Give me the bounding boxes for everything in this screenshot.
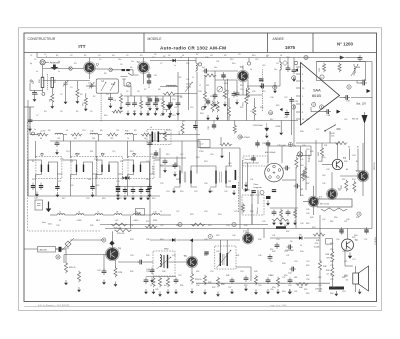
resistor chain 4 — [107, 133, 118, 136]
chain under-labels — [40, 138, 146, 140]
wire — [263, 229, 265, 239]
wire U1 pin 1 — [296, 66, 301, 68]
wire — [245, 105, 247, 121]
resistor bottom 153.5 — [152, 277, 155, 287]
wire shunt rail — [124, 95, 182, 97]
antenna arrow — [50, 65, 58, 71]
wire IF drop 149.5 — [149, 174, 151, 186]
svg-text:SAA: SAA — [313, 89, 321, 93]
transistor T2 — [138, 62, 150, 74]
svg-text:C12: C12 — [222, 96, 225, 98]
ground — [266, 289, 270, 294]
capacitor C19 — [289, 97, 294, 104]
ground — [216, 115, 220, 120]
ground — [216, 292, 220, 297]
resistor R12 — [203, 91, 206, 101]
svg-text:R23: R23 — [160, 165, 163, 167]
label R27 — [69, 267, 75, 269]
svg-text:C31: C31 — [130, 225, 133, 227]
svg-text:R35: R35 — [216, 235, 219, 237]
dashed box TR8 — [215, 246, 236, 269]
coil L7 — [95, 214, 103, 215]
label HP — [344, 276, 348, 278]
wire — [150, 239, 171, 241]
wire — [196, 72, 198, 148]
capacitor C14 — [221, 72, 225, 80]
resistor R16 — [204, 74, 216, 77]
label L7 — [97, 212, 100, 214]
label 07V — [40, 131, 46, 133]
capacitor C44 — [150, 268, 155, 275]
node b2 — [292, 105, 296, 109]
svg-text:1k: 1k — [300, 245, 302, 247]
svg-text:L8: L8 — [280, 55, 282, 57]
svg-text:C62: C62 — [344, 119, 347, 121]
box L9B — [136, 209, 145, 216]
pin 2 — [302, 96, 304, 98]
svg-text:C24: C24 — [166, 191, 169, 193]
box CAR — [38, 247, 62, 253]
wire — [247, 163, 249, 190]
diode D10 — [243, 188, 250, 191]
svg-text:R58: R58 — [282, 263, 285, 265]
dashed box TR4 — [128, 157, 154, 179]
svg-text:C15: C15 — [262, 65, 265, 67]
resistor R30 — [158, 277, 161, 287]
svg-text:C7: C7 — [160, 63, 162, 65]
wire — [229, 152, 231, 166]
capacitor C46d — [272, 189, 276, 192]
wire — [337, 143, 339, 159]
label F2 — [59, 220, 62, 222]
node 8 — [319, 105, 323, 109]
svg-text:C36: C36 — [270, 97, 273, 99]
svg-text:C68: C68 — [340, 233, 343, 235]
svg-text:C31: C31 — [250, 179, 253, 181]
svg-text:R57: R57 — [316, 129, 319, 131]
svg-text:5p: 5p — [96, 65, 98, 67]
svg-text:R66: R66 — [330, 293, 333, 295]
ground — [206, 115, 210, 120]
wire agc drop 63.5 — [63, 135, 65, 142]
svg-text:C41: C41 — [300, 159, 303, 161]
svg-text:C6: C6 — [120, 64, 122, 66]
wire — [155, 159, 161, 161]
svg-text:C33: C33 — [192, 225, 195, 227]
svg-text:C8: C8 — [210, 55, 212, 57]
coil L6 — [76, 214, 84, 215]
capacitor C15 — [260, 84, 267, 89]
label R26 — [114, 227, 122, 229]
svg-text:R3: R3 — [80, 94, 82, 96]
wire mid rail right — [296, 228, 372, 230]
svg-text:470Ω: 470Ω — [275, 126, 280, 128]
ground — [272, 220, 276, 225]
transistor T3 — [237, 70, 249, 82]
coil L9 — [133, 214, 141, 215]
ground — [213, 102, 217, 107]
label 305 — [55, 79, 57, 83]
wire T2 collector — [143, 58, 145, 63]
wire — [124, 85, 131, 87]
svg-text:R8: R8 — [158, 89, 160, 91]
label M8 — [164, 249, 169, 251]
resistor R33 — [216, 277, 219, 287]
diamond node — [283, 61, 288, 66]
pin 13 — [302, 88, 305, 90]
svg-text:R42: R42 — [272, 251, 275, 253]
svg-text:C41: C41 — [272, 235, 275, 237]
label bande — [245, 162, 260, 165]
capacitor C24b — [31, 183, 35, 191]
svg-text:R59: R59 — [322, 157, 325, 159]
svg-text:22n: 22n — [131, 61, 134, 63]
wire IF bottom rail — [28, 195, 160, 197]
label FL2 — [133, 154, 138, 156]
capacitor IF low 148 — [146, 187, 150, 195]
svg-text:R28: R28 — [176, 225, 179, 227]
title ITT — [78, 44, 85, 50]
capacitor C47d — [251, 190, 255, 193]
svg-text:R10: R10 — [104, 115, 107, 117]
wire agc drop 133.5 — [133, 135, 135, 142]
label R27 — [239, 137, 250, 139]
svg-text:R20: R20 — [180, 191, 183, 193]
coil chain 5 — [125, 133, 133, 134]
ground — [254, 290, 258, 295]
resistor R23b — [145, 225, 157, 228]
svg-text:R26: R26 — [90, 225, 93, 227]
label Volume — [257, 206, 259, 214]
capacitor C21 — [193, 123, 197, 131]
svg-text:M8Ω: M8Ω — [164, 249, 169, 251]
wire agc drop 98.5 — [98, 135, 100, 142]
wire — [279, 58, 281, 63]
svg-text:R30: R30 — [244, 225, 247, 227]
dashed box TR7 — [153, 251, 175, 276]
svg-text:R48: R48 — [226, 275, 229, 277]
svg-text:150: 150 — [92, 138, 95, 140]
svg-text:C33: C33 — [198, 91, 201, 93]
resistor R5 — [112, 110, 122, 113]
svg-text:C63: C63 — [342, 291, 345, 293]
svg-text:ANNEE: ANNEE — [273, 37, 285, 41]
label T7 — [319, 196, 323, 200]
svg-text:C20: C20 — [70, 185, 73, 187]
wire — [282, 179, 296, 181]
svg-text:C16: C16 — [286, 57, 289, 59]
svg-text:C3: C3 — [98, 55, 100, 57]
svg-text:R63: R63 — [306, 223, 309, 225]
coil L10 — [152, 214, 160, 215]
svg-text:C10: C10 — [172, 99, 175, 101]
label C4 — [113, 100, 117, 102]
capacitor C28b — [255, 140, 259, 148]
label 47k — [315, 243, 319, 245]
svg-text:C11: C11 — [120, 111, 123, 113]
svg-text:C58-100nF: C58-100nF — [253, 125, 264, 127]
circled plus — [288, 142, 292, 146]
svg-text:R58: R58 — [300, 131, 303, 133]
trimmer node — [126, 82, 131, 87]
capacitor C38 — [325, 109, 332, 114]
wire — [111, 231, 113, 248]
wire — [270, 207, 298, 209]
coil bar L10 — [235, 170, 237, 180]
svg-text:R40: R40 — [204, 255, 207, 257]
label SAA — [313, 89, 321, 93]
tiny value labels — [30, 54, 367, 295]
ground — [139, 195, 143, 200]
resistor R44 — [320, 147, 323, 157]
wire — [313, 206, 315, 215]
ground — [76, 99, 80, 104]
label L8 — [116, 212, 119, 214]
svg-text:C22: C22 — [60, 159, 63, 161]
label T1 — [96, 62, 100, 66]
wire — [247, 229, 249, 234]
ground — [116, 192, 120, 197]
wire stub — [176, 93, 197, 95]
resistor chain 6 — [141, 133, 152, 136]
svg-text:C46: C46 — [306, 209, 309, 211]
svg-text:C21: C21 — [250, 111, 253, 113]
capacitor C39 — [361, 81, 368, 86]
svg-text:L5: L5 — [148, 87, 150, 89]
wire — [319, 271, 321, 292]
svg-text:R56: R56 — [330, 249, 333, 251]
ratio detector tube socket — [265, 163, 284, 182]
wire — [279, 70, 281, 86]
capacitor agc2 — [148, 141, 153, 148]
svg-text:R21: R21 — [70, 161, 73, 163]
wire — [253, 116, 255, 121]
wire — [67, 247, 69, 249]
wire — [89, 73, 91, 80]
wire — [226, 240, 228, 253]
svg-text:4n7: 4n7 — [202, 67, 205, 69]
label C33 — [346, 101, 351, 103]
wire A drop — [348, 149, 350, 161]
svg-text:C13: C13 — [172, 115, 175, 117]
capacitor C55 — [339, 227, 343, 235]
box WT-7013 — [317, 199, 352, 207]
ground — [64, 280, 68, 285]
wire — [34, 141, 36, 158]
svg-text:C15-10µF: C15-10µF — [153, 165, 155, 174]
label T5 — [184, 254, 188, 258]
label Vers FM — [245, 158, 255, 161]
capacitor C9 — [148, 96, 152, 104]
FM IF transformer TR0 — [152, 132, 160, 143]
capacitor C6 — [121, 77, 128, 80]
label 15 — [346, 280, 349, 282]
node f — [294, 61, 298, 65]
resistor R39 — [318, 260, 321, 271]
svg-text:C31: C31 — [186, 79, 189, 81]
svg-text:R20: R20 — [260, 107, 263, 109]
ground — [152, 289, 156, 294]
capacitor IF 92.5 — [90, 184, 94, 192]
wire stub 0 — [127, 96, 129, 101]
label C39 — [362, 80, 367, 82]
wire — [110, 93, 112, 95]
svg-text:R44: R44 — [318, 161, 321, 163]
resistor R22 — [233, 124, 236, 133]
label CTN — [315, 289, 323, 291]
svg-text:R2: R2 — [84, 55, 86, 57]
wire — [196, 148, 198, 174]
ground — [334, 291, 338, 296]
svg-text:C26: C26 — [224, 191, 227, 193]
wire — [215, 79, 237, 81]
svg-text:C63: C63 — [306, 149, 309, 151]
svg-text:R39: R39 — [146, 255, 149, 257]
svg-text:C23: C23 — [94, 159, 97, 161]
label magneto — [254, 186, 263, 189]
wire vertical rail — [239, 148, 241, 196]
resistor R8 — [163, 92, 176, 95]
wire right bus upper — [371, 62, 373, 136]
node c — [32, 132, 35, 135]
wire — [293, 58, 295, 69]
svg-text:supp. au n. 1480: supp. au n. 1480 — [270, 305, 287, 307]
svg-text:Rth 16: Rth 16 — [352, 118, 359, 121]
ground — [148, 192, 152, 197]
wire — [72, 68, 84, 70]
node plus — [320, 75, 324, 79]
ground — [163, 168, 167, 173]
svg-text:C71: C71 — [344, 261, 347, 263]
wire bottom tie — [146, 276, 176, 278]
svg-text:C1: C1 — [34, 59, 36, 61]
wire — [191, 267, 193, 274]
wire — [287, 58, 289, 69]
svg-text:R61: R61 — [300, 189, 303, 191]
svg-text:870: 870 — [327, 258, 330, 260]
wire return 35.4 — [34, 175, 36, 197]
svg-text:C12: C12 — [110, 138, 113, 140]
capacitor IF low 125 — [123, 187, 127, 195]
label R52 — [341, 185, 343, 188]
svg-text:R14: R14 — [232, 63, 235, 65]
svg-text:C46: C46 — [258, 255, 261, 257]
wire — [257, 190, 259, 204]
svg-text:R42: R42 — [310, 151, 313, 153]
svg-text:R5: R5 — [76, 111, 78, 113]
svg-text:C43: C43 — [352, 155, 355, 157]
diode D1 — [37, 133, 41, 135]
wire — [213, 95, 215, 102]
wire — [331, 262, 333, 268]
ground — [116, 195, 120, 200]
thermistor CTN — [329, 287, 344, 290]
svg-text:R9: R9 — [224, 55, 226, 57]
svg-text:C54: C54 — [284, 251, 287, 253]
wire — [56, 248, 67, 250]
wire — [270, 237, 297, 239]
wire — [42, 65, 44, 77]
wire — [331, 172, 333, 189]
wire — [331, 278, 333, 287]
wire — [340, 175, 358, 177]
resistor R21 — [338, 63, 341, 72]
svg-text:R47: R47 — [306, 183, 309, 185]
svg-text:C44: C44 — [300, 175, 303, 177]
resistor R42 — [295, 157, 298, 168]
svg-text:T11: T11 — [243, 230, 248, 234]
svg-text:R27: R27 — [88, 179, 91, 181]
ground — [266, 201, 270, 206]
capacitor C16 — [358, 55, 363, 62]
ground — [279, 220, 283, 225]
svg-text:C-10/35V: C-10/35V — [375, 236, 377, 245]
label 302 — [39, 79, 41, 83]
wire — [319, 215, 321, 240]
trimmer bowtie — [123, 176, 130, 180]
svg-text:C14: C14 — [66, 151, 69, 153]
label T8 — [338, 188, 342, 192]
capacitor C28c — [251, 155, 255, 163]
svg-text:C55: C55 — [294, 261, 297, 263]
label F1 — [41, 154, 44, 156]
ground — [223, 102, 227, 107]
svg-text:R57: R57 — [270, 249, 273, 251]
fuse — [326, 239, 333, 245]
svg-text:R51: R51 — [356, 217, 359, 219]
label L5 — [59, 212, 62, 214]
ground — [55, 150, 59, 155]
diode diamond — [109, 241, 114, 246]
svg-text:4,7k: 4,7k — [315, 243, 319, 245]
resistor R27 — [64, 262, 67, 273]
wire dashed vol — [238, 182, 240, 212]
wire — [152, 157, 186, 159]
svg-text:C56: C56 — [330, 265, 333, 267]
resistor R38 — [331, 250, 334, 261]
wire — [296, 142, 340, 144]
svg-text:R60: R60 — [270, 275, 273, 277]
label T11 — [243, 230, 248, 234]
wire — [130, 86, 132, 96]
svg-text:N° 1200: N° 1200 — [337, 41, 353, 46]
svg-text:C51: C51 — [364, 239, 367, 241]
capacitor C5 — [126, 101, 131, 108]
svg-text:1975: 1975 — [285, 45, 296, 50]
label P10 — [200, 151, 205, 153]
wire stub 2 — [140, 96, 142, 101]
svg-text:C18: C18 — [210, 154, 213, 156]
op-amp U1 SAA601B — [301, 63, 340, 126]
svg-text:R25: R25 — [32, 179, 35, 181]
svg-text:R17: R17 — [62, 198, 65, 200]
coil L2 — [51, 78, 54, 88]
IF transformer TR2 — [71, 153, 98, 174]
resistor R19 — [220, 143, 232, 146]
svg-text:C12: C12 — [146, 115, 149, 117]
wire — [362, 181, 364, 196]
ground — [169, 111, 173, 116]
capacitor C50 — [287, 245, 294, 250]
wire — [321, 143, 323, 147]
capacitor C7 — [28, 118, 33, 125]
svg-text:C32: C32 — [178, 77, 181, 79]
svg-text:R31-1k: R31-1k — [195, 279, 201, 281]
wire — [169, 261, 188, 263]
svg-text:C28: C28 — [116, 181, 119, 183]
capacitor C8b — [147, 78, 151, 86]
svg-text:C53: C53 — [276, 239, 279, 241]
